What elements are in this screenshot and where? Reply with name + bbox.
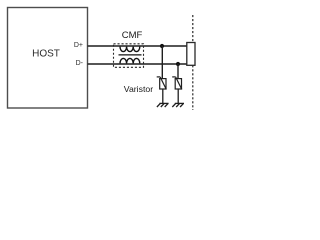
chassis ground 1: [157, 103, 169, 107]
svg-text:D-: D-: [76, 60, 84, 67]
connector boundary (dashed) upper: [192, 15, 194, 43]
junction node on D-: [176, 62, 180, 66]
junction node on D+: [160, 44, 164, 48]
varistor RV2: [172, 77, 182, 90]
svg-text:Varistor: Varistor: [124, 84, 153, 94]
HOST box: [8, 8, 88, 109]
wire D+ (HOST to connector): [88, 45, 187, 47]
wire D+ node down to varistor 1: [161, 46, 163, 79]
core line: [119, 54, 142, 56]
chassis ground 2: [172, 103, 184, 107]
svg-text:D+: D+: [74, 42, 83, 49]
CMF dashed box: [114, 44, 144, 68]
wire varistor 2 to ground: [177, 89, 179, 103]
wire varistor 1 to ground: [162, 89, 164, 103]
inductor L1 (top winding, arcs below D+ wire): [120, 47, 140, 52]
wire D- node down to varistor 2: [177, 64, 179, 79]
connector pin block: [187, 43, 195, 66]
varistor RV1: [157, 77, 167, 90]
svg-text:CMF: CMF: [122, 30, 143, 41]
connector boundary (dashed) lower: [192, 65, 194, 110]
wire D- (HOST to connector): [88, 63, 187, 65]
svg-text:HOST: HOST: [32, 49, 60, 60]
inductor L2 (bottom winding, arcs above D- wire): [120, 58, 140, 63]
